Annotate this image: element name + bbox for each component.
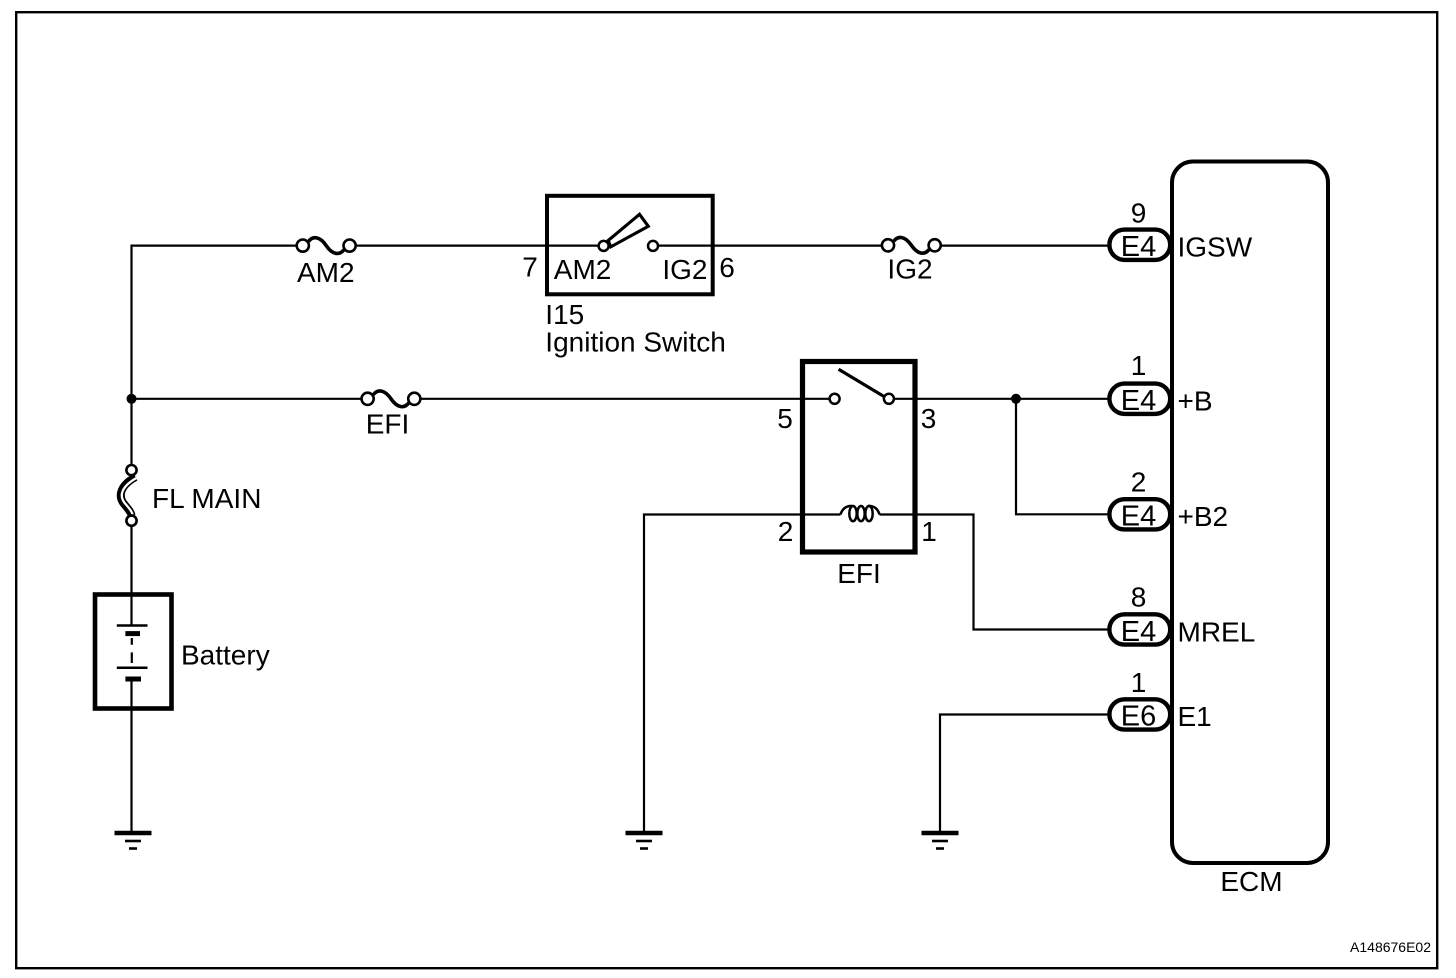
connector E6 pin 1 E1 xyxy=(1109,667,1211,733)
svg-text:A148676E02: A148676E02 xyxy=(1350,939,1431,955)
svg-text:7: 7 xyxy=(522,252,538,283)
svg-text:EFI: EFI xyxy=(837,558,881,589)
svg-text:+B: +B xyxy=(1178,386,1213,417)
node dot at +B branch xyxy=(1011,394,1021,404)
svg-text:E4: E4 xyxy=(1121,231,1156,263)
connector E4 pin 1 +B xyxy=(1109,350,1212,417)
connector E4 pin 9 IGSW xyxy=(1109,198,1252,264)
relay switch blade xyxy=(839,369,885,396)
svg-text:1: 1 xyxy=(1131,667,1147,698)
svg-text:E4: E4 xyxy=(1121,501,1156,533)
svg-text:MREL: MREL xyxy=(1178,616,1256,647)
svg-text:Ignition Switch: Ignition Switch xyxy=(545,327,726,358)
svg-text:Battery: Battery xyxy=(181,640,270,671)
wire: E1 pin to ground run xyxy=(940,715,1108,832)
wire: EFI fuse to relay pin 5 xyxy=(421,398,829,400)
fuse AM2 xyxy=(297,238,356,254)
svg-text:6: 6 xyxy=(719,252,735,283)
battery plate short thick top xyxy=(125,631,140,636)
wire: +B node branch down to +B2 xyxy=(1016,399,1108,515)
ground at relay coil xyxy=(626,833,663,849)
ignition switch terminal IG2 xyxy=(648,241,658,251)
ground at battery xyxy=(115,833,152,849)
svg-text:5: 5 xyxy=(777,403,793,434)
wire: battery to ground xyxy=(130,681,132,831)
svg-text:E4: E4 xyxy=(1121,385,1156,417)
fusible link FL MAIN xyxy=(121,465,137,526)
svg-text:2: 2 xyxy=(778,516,794,547)
fuse IG2 xyxy=(882,237,941,253)
wire: left bus FL MAIN to battery plate xyxy=(130,520,132,626)
battery plate long bottom xyxy=(117,666,148,669)
svg-text:ECM: ECM xyxy=(1220,866,1282,897)
svg-text:IG2: IG2 xyxy=(887,254,932,285)
connector E4 pin 8 MREL xyxy=(1109,582,1255,649)
wire: IG2 fuse to IGSW pin xyxy=(941,245,1108,247)
battery dashed cell divider xyxy=(131,638,133,645)
svg-text:2: 2 xyxy=(1131,466,1147,497)
wire: bus to EFI fuse xyxy=(132,398,362,400)
svg-text:I15: I15 xyxy=(545,299,584,330)
battery box xyxy=(95,595,172,709)
svg-text:FL MAIN: FL MAIN xyxy=(152,483,261,514)
svg-text:IG2: IG2 xyxy=(662,254,707,285)
svg-text:AM2: AM2 xyxy=(554,254,612,285)
svg-text:+B2: +B2 xyxy=(1178,501,1229,532)
battery plate short thick bottom xyxy=(125,677,141,682)
svg-text:3: 3 xyxy=(921,403,937,434)
connector E4 pin 2 +B2 xyxy=(1109,466,1228,532)
wire: AM2 fuse to ignition switch xyxy=(356,245,598,247)
wire: left bus top segment (battery to AM2 row) xyxy=(132,246,297,470)
wire: relay coil pin 2 to ground run xyxy=(644,515,841,832)
ground at E1 xyxy=(922,833,959,849)
svg-text:8: 8 xyxy=(1131,582,1147,613)
ignition switch lever xyxy=(608,214,648,247)
svg-text:E1: E1 xyxy=(1178,701,1212,732)
wire: ignition switch to IG2 fuse xyxy=(659,245,882,247)
svg-text:EFI: EFI xyxy=(366,409,410,440)
fuse EFI xyxy=(362,391,421,407)
ignition switch terminal AM2 xyxy=(599,241,609,251)
svg-text:E4: E4 xyxy=(1121,616,1156,648)
relay coil xyxy=(841,506,880,521)
relay contact 3 xyxy=(884,394,894,404)
wire: relay coil pin 1 to MREL xyxy=(880,515,1108,630)
wire: relay pin 3 to +B pin xyxy=(895,398,1108,400)
relay contact 5 xyxy=(830,394,840,404)
node dot at left bus xyxy=(127,394,137,404)
ignition switch I15 box xyxy=(547,196,713,294)
relay EFI box xyxy=(803,362,916,553)
svg-text:1: 1 xyxy=(921,516,937,547)
battery plate long top xyxy=(117,624,148,627)
svg-text:9: 9 xyxy=(1131,198,1147,229)
svg-text:AM2: AM2 xyxy=(297,257,355,288)
svg-text:1: 1 xyxy=(1131,350,1147,381)
svg-text:E6: E6 xyxy=(1121,701,1156,733)
svg-text:IGSW: IGSW xyxy=(1178,232,1253,263)
ECM box xyxy=(1172,162,1328,864)
